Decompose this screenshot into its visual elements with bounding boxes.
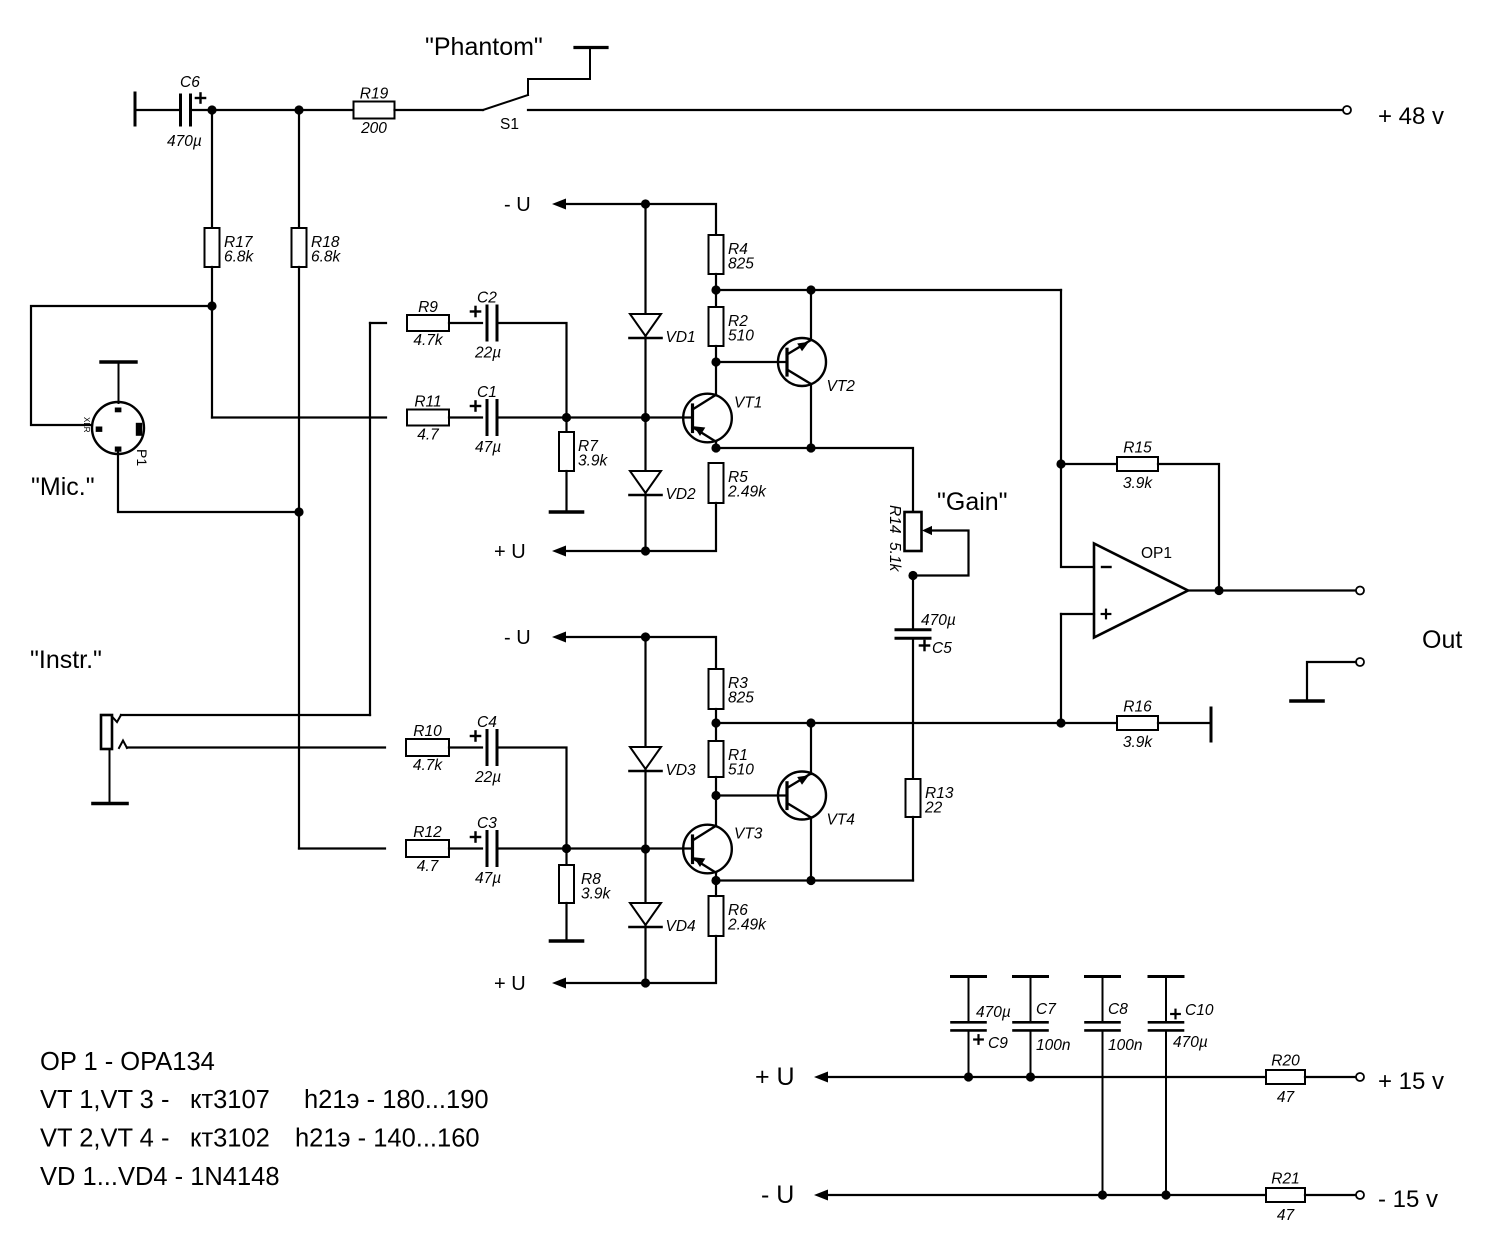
svg-text:"Phantom": "Phantom" [425, 33, 543, 61]
ground (output) [1291, 699, 1323, 703]
wire (wiper loop) [913, 531, 969, 576]
capacitor C10 [1149, 977, 1214, 1196]
wire [912, 576, 914, 630]
wire [715, 442, 717, 449]
connector X1 (jack) [101, 715, 127, 802]
svg-text:- U: - U [761, 1181, 794, 1209]
capacitor C2 [471, 290, 501, 362]
node (C6 / R17) [207, 105, 216, 114]
legend line 2 [40, 1086, 489, 1114]
svg-text:VT3: VT3 [734, 826, 763, 843]
node (VT4 collector column) [806, 718, 815, 727]
node (R2 / VT1 collector / VT2 base) [711, 357, 720, 366]
wire [565, 418, 567, 433]
svg-text:C7: C7 [1036, 1001, 1057, 1018]
wire [369, 323, 371, 715]
node (VT3 emitter / R6) [711, 876, 720, 885]
svg-text:C4: C4 [477, 714, 497, 731]
svg-text:+ U: + U [755, 1063, 795, 1091]
svg-text:VD1: VD1 [666, 329, 696, 346]
node (VT1 emitter / R5) [711, 443, 720, 452]
svg-text:VD4: VD4 [666, 918, 697, 935]
wire [299, 847, 385, 849]
svg-text:100n: 100n [1108, 1037, 1142, 1054]
wire [644, 204, 646, 551]
svg-text:OP1: OP1 [1141, 545, 1172, 562]
terminal +48v [1343, 106, 1351, 114]
wire [1061, 290, 1094, 567]
node (R18 / mic pin3) [294, 507, 303, 516]
svg-text:C1: C1 [477, 384, 497, 401]
svg-text:47: 47 [1277, 1089, 1296, 1106]
svg-text:кт3102: кт3102 [190, 1125, 270, 1153]
resistor R2 [709, 307, 755, 346]
terminal -15v [1356, 1191, 1364, 1199]
arrow -U [552, 199, 566, 210]
wire [449, 322, 482, 324]
capacitor C8 [1086, 977, 1143, 1196]
node (-U / diode col) [641, 199, 650, 208]
arrow -U rail [814, 1190, 828, 1201]
potentiometer R14 [886, 505, 922, 573]
svg-text:R19: R19 [360, 86, 389, 103]
wire [716, 879, 913, 881]
wire [127, 746, 385, 748]
label +U [494, 541, 526, 563]
label Instr [30, 646, 102, 674]
wire [1061, 613, 1094, 615]
wire [1061, 463, 1117, 465]
svg-text:"Instr.": "Instr." [30, 646, 102, 674]
wire [370, 322, 386, 324]
svg-text:- U: - U [504, 194, 531, 216]
wire [715, 346, 717, 395]
ground (jack sleeve) [93, 802, 127, 806]
wire [644, 637, 646, 983]
transistor VT4 [778, 772, 855, 829]
resistor R7 [559, 432, 609, 471]
svg-text:OP 1 - OPA134: OP 1 - OPA134 [40, 1048, 215, 1076]
wire [497, 847, 693, 849]
resistor R9 [407, 299, 449, 349]
svg-text:3.9k: 3.9k [578, 453, 609, 470]
wire [828, 1194, 1266, 1196]
terminal Out+ [1356, 587, 1364, 595]
capacitor C3 [471, 815, 501, 887]
node (C10 / -U) [1161, 1190, 1170, 1199]
label Phantom [425, 33, 543, 61]
wire [715, 873, 717, 881]
arrow +U (lower) [552, 978, 566, 989]
wire [449, 746, 482, 748]
svg-text:C6: C6 [180, 74, 200, 91]
svg-text:VD 1...VD4 - 1N4148: VD 1...VD4 - 1N4148 [40, 1163, 280, 1191]
transistor VT1 [683, 394, 762, 443]
resistor R6 [709, 896, 768, 936]
svg-text:C3: C3 [477, 815, 497, 832]
node (diode col / VT3 base) [641, 844, 650, 853]
wire [566, 204, 716, 235]
node (R4/R2/VT2-emitter net) [711, 285, 720, 294]
node (R1 / VT3 collector / VT4 base) [711, 791, 720, 800]
wire [716, 448, 913, 512]
label +U (lower) [494, 973, 526, 995]
node (+U / diode col) [641, 546, 650, 555]
diode VD1 [630, 314, 696, 346]
resistor R4 [709, 235, 755, 274]
node (OP1 output) [1214, 586, 1223, 595]
wire [449, 416, 482, 418]
svg-text:4.7k: 4.7k [413, 757, 444, 774]
node (VT2 collector / emitter row) [806, 443, 815, 452]
svg-text:"Mic.": "Mic." [31, 473, 95, 501]
svg-text:3.9k: 3.9k [581, 886, 612, 903]
terminal +15v [1356, 1073, 1364, 1081]
resistor R13 [906, 779, 954, 817]
svg-text:47µ: 47µ [475, 439, 501, 456]
svg-text:47: 47 [1277, 1207, 1296, 1224]
terminal bar (input of C6) [134, 93, 137, 125]
resistor R19 [354, 86, 395, 138]
arrow +U [552, 546, 566, 557]
svg-text:C2: C2 [477, 290, 497, 307]
svg-text:4.7k: 4.7k [413, 332, 444, 349]
node (C9 / +U) [964, 1072, 973, 1081]
wire [1158, 722, 1211, 724]
svg-text:4.7: 4.7 [417, 858, 440, 875]
wire [497, 416, 693, 418]
wiper arrow R14 [922, 526, 932, 535]
svg-text:R15: R15 [1123, 440, 1152, 457]
wire [192, 109, 354, 111]
svg-text:VT2: VT2 [827, 378, 856, 395]
svg-text:R12: R12 [413, 824, 442, 841]
legend line 3 [40, 1125, 480, 1153]
node (-U lower / diode col) [641, 632, 650, 641]
ground (R8) [551, 939, 583, 943]
node (C7 / +U) [1026, 1072, 1035, 1081]
resistor R15 [1117, 440, 1158, 493]
svg-text:Out: Out [1422, 626, 1462, 654]
wire [912, 817, 914, 881]
svg-text:3.9k: 3.9k [1123, 734, 1154, 751]
node (R17 / mic pin2) [207, 301, 216, 310]
svg-text:C5: C5 [932, 640, 952, 657]
resistor R16 [1117, 699, 1158, 752]
wire [566, 637, 716, 669]
capacitor C9 [952, 977, 1011, 1078]
node (R3/R1/feedback net) [711, 718, 720, 727]
wire [118, 452, 299, 512]
label -U (lower) [504, 627, 531, 649]
wire [1305, 1194, 1356, 1196]
wire [395, 109, 484, 111]
wire [1060, 614, 1062, 723]
svg-text:200: 200 [360, 120, 387, 137]
resistor R8 [559, 865, 612, 903]
wire [715, 709, 717, 741]
wire [828, 1076, 1266, 1078]
label Mic [31, 473, 95, 501]
arrow -U (lower) [552, 632, 566, 643]
svg-text:4.7: 4.7 [417, 427, 440, 444]
resistor R20 [1266, 1053, 1305, 1107]
resistor R18 [292, 228, 342, 267]
wire [528, 109, 1343, 111]
resistor R1 [709, 741, 755, 779]
svg-text:825: 825 [728, 690, 754, 707]
wire [912, 640, 914, 780]
svg-text:+ U: + U [494, 973, 526, 995]
label +U rail [755, 1063, 795, 1091]
capacitor C6 [167, 74, 205, 150]
wire [1307, 662, 1356, 700]
wire [810, 818, 812, 881]
wire [497, 323, 567, 418]
svg-text:470µ: 470µ [976, 1004, 1011, 1021]
switch S1 [483, 48, 607, 134]
svg-text:+ 48 v: + 48 v [1378, 103, 1444, 130]
wire [1158, 464, 1219, 591]
wire [31, 306, 212, 425]
terminal bar (R16 common) [1210, 708, 1213, 741]
svg-text:R21: R21 [1271, 1171, 1299, 1188]
svg-text:C9: C9 [988, 1035, 1008, 1052]
label Out [1422, 626, 1462, 654]
svg-text:100n: 100n [1036, 1037, 1070, 1054]
wire [565, 903, 567, 940]
svg-text:6.8k: 6.8k [311, 249, 342, 266]
svg-text:+ U: + U [494, 541, 526, 563]
wire [1305, 1076, 1356, 1078]
svg-text:R9: R9 [418, 299, 438, 316]
svg-text:S1: S1 [500, 116, 519, 133]
wire [715, 274, 717, 307]
svg-text:VT 2,VT 4 -: VT 2,VT 4 - [40, 1125, 169, 1153]
svg-text:VD3: VD3 [666, 762, 697, 779]
capacitor C4 [471, 714, 501, 786]
svg-text:470µ: 470µ [1173, 1034, 1208, 1051]
svg-text:825: 825 [728, 256, 754, 273]
diode VD4 [630, 903, 697, 935]
node (C3 / R8) [562, 844, 571, 853]
svg-text:C8: C8 [1108, 1001, 1128, 1018]
wire [715, 881, 717, 897]
svg-text:кт3107: кт3107 [190, 1086, 270, 1114]
svg-text:h21э - 140...160: h21э - 140...160 [295, 1125, 480, 1153]
ground (above XLR) [101, 362, 136, 403]
svg-text:3.9k: 3.9k [1123, 475, 1154, 492]
svg-text:+ 15 v: + 15 v [1378, 1068, 1444, 1095]
svg-text:XLR: XLR [82, 417, 91, 433]
wire [716, 722, 1061, 724]
node (feedback / R15) [1056, 459, 1065, 468]
resistor R11 [407, 394, 449, 444]
resistor R17 [205, 228, 255, 267]
resistor R12 [406, 824, 449, 875]
svg-text:C10: C10 [1185, 1002, 1214, 1019]
svg-text:47µ: 47µ [475, 870, 501, 887]
label +48v [1378, 103, 1444, 130]
svg-text:VT4: VT4 [827, 812, 856, 829]
svg-text:"Gain": "Gain" [937, 488, 1008, 516]
label -U rail [761, 1181, 794, 1209]
wire [1188, 589, 1356, 591]
diode VD2 [630, 471, 697, 503]
node (VT4 collector lower) [806, 876, 815, 885]
connector P1 (XLR) [82, 402, 150, 466]
legend line 1 [40, 1048, 215, 1076]
svg-text:- U: - U [504, 627, 531, 649]
svg-text:VT1: VT1 [734, 395, 762, 412]
op-amp OP1 [1094, 544, 1188, 638]
svg-text:- 15 v: - 15 v [1378, 1186, 1438, 1213]
capacitor C7 [1014, 977, 1071, 1078]
wire [1061, 722, 1117, 724]
svg-text:470µ: 470µ [167, 133, 202, 150]
node (R18 / R19) [294, 105, 303, 114]
svg-text:VT 1,VT 3 -: VT 1,VT 3 - [40, 1086, 169, 1114]
label -15v [1378, 1186, 1438, 1213]
svg-text:R16: R16 [1123, 699, 1152, 716]
arrow +U rail [814, 1072, 828, 1083]
node (OP1 + input / R16) [1056, 718, 1065, 727]
wire [716, 794, 787, 796]
wire [810, 723, 812, 774]
wire [211, 110, 213, 228]
label -U [504, 194, 531, 216]
wire [449, 847, 482, 849]
wire [298, 267, 300, 849]
transistor VT2 [778, 338, 855, 395]
node (C8 / -U) [1098, 1190, 1107, 1199]
wire [497, 748, 567, 849]
wire [211, 267, 213, 418]
wire [565, 471, 567, 511]
node (R14 bottom / wiper) [908, 571, 917, 580]
wire [135, 109, 178, 111]
svg-text:22µ: 22µ [474, 769, 501, 786]
diode VD3 [630, 747, 697, 779]
svg-text:6.8k: 6.8k [224, 249, 255, 266]
svg-text:2.49k: 2.49k [727, 917, 767, 934]
transistor VT3 [683, 825, 763, 874]
svg-text:2.49k: 2.49k [727, 484, 767, 501]
svg-text:510: 510 [728, 762, 754, 779]
svg-text:R14 5.1k: R14 5.1k [886, 505, 903, 573]
wire [716, 361, 787, 363]
node (C1 / R7) [562, 413, 571, 422]
svg-text:R11: R11 [414, 394, 441, 411]
node (VT2 emitter column) [806, 285, 815, 294]
svg-text:P1: P1 [134, 449, 150, 466]
wire [566, 503, 716, 551]
svg-text:22: 22 [924, 800, 943, 817]
legend line 4 [40, 1163, 280, 1191]
svg-text:22µ: 22µ [474, 345, 501, 362]
label Gain [937, 488, 1008, 516]
resistor R10 [406, 723, 449, 774]
resistor R21 [1266, 1171, 1305, 1225]
svg-text:h21э - 180...190: h21э - 180...190 [304, 1086, 489, 1114]
terminal Out- [1356, 658, 1364, 666]
wire [716, 289, 1061, 291]
wire [566, 936, 716, 983]
wire [810, 290, 812, 340]
svg-text:470µ: 470µ [921, 612, 956, 629]
wire [715, 777, 717, 826]
node (VD1-VD2 / VT1 base) [641, 413, 650, 422]
resistor R3 [709, 669, 755, 709]
ground (R7) [551, 510, 583, 514]
capacitor C1 [471, 384, 501, 456]
svg-text:510: 510 [728, 328, 754, 345]
wire [121, 714, 370, 716]
wire [298, 110, 300, 228]
capacitor C5 [896, 612, 956, 657]
svg-text:R10: R10 [413, 723, 442, 740]
label +15v [1378, 1068, 1444, 1095]
wire [565, 849, 567, 866]
wire [212, 416, 386, 418]
svg-text:VD2: VD2 [666, 486, 697, 503]
svg-text:R20: R20 [1271, 1053, 1300, 1070]
node (+U lower / diode col) [641, 978, 650, 987]
resistor R5 [709, 463, 768, 503]
wire [810, 384, 812, 448]
